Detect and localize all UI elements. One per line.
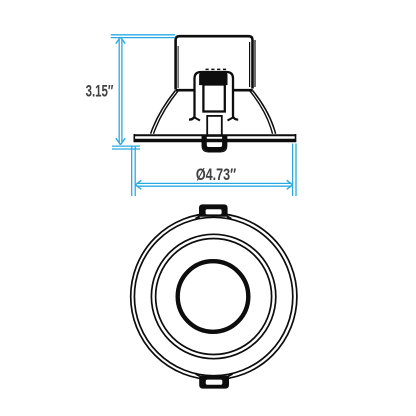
housing box right edge inner echo — [249, 42, 251, 87]
ceiling flange top line — [134, 134, 297, 136]
dim 4.73 horizontal dimension line pair — [137, 183, 292, 186]
bottom mounting tab slot — [206, 380, 223, 385]
bottom view outer flange inner circle — [134, 217, 292, 375]
housing box (side view can) — [176, 36, 253, 89]
bottom view lens opening thick circle — [178, 261, 249, 332]
top mounting tab right ear — [227, 217, 231, 219]
LED module rectangle — [203, 85, 224, 112]
housing box right edge echo — [254, 40, 256, 87]
svg-text:3.15″: 3.15″ — [86, 82, 114, 101]
bottom mounting tab (filled) — [199, 376, 229, 389]
top mounting tab (filled) — [199, 204, 228, 216]
flange left end cap — [133, 134, 135, 142]
top mounting tab left ear — [196, 217, 200, 219]
dim 3.15 top arrowhead — [116, 37, 125, 44]
dim 3.15 top extension line pair — [111, 35, 175, 38]
gimbal yoke U strap below flange — [205, 136, 225, 149]
trim cone left bell curve — [151, 91, 176, 134]
cone top rim line right segment — [234, 89, 253, 92]
dim 4.73 right extension line pair — [293, 144, 296, 197]
gimbal bracket right foot — [228, 118, 234, 121]
bottom view trim ring outer circle — [151, 234, 275, 358]
gimbal yoke stem rectangle — [207, 116, 222, 136]
trim cone left bell curve echo — [154, 91, 179, 134]
top mounting tab slot — [206, 209, 222, 214]
bottom view trim ring inner circle — [156, 239, 272, 355]
bottom mounting tab right ear — [229, 374, 233, 376]
gimbal yoke U strap echo outline — [202, 136, 227, 152]
trim cone right bell curve echo — [250, 91, 273, 134]
dim 4.73 left extension line pair — [132, 146, 136, 196]
dim 4.73 left arrowhead — [135, 180, 141, 189]
housing box left edge echo — [177, 46, 179, 88]
dim 3.15 bottom extension line pair — [112, 146, 140, 149]
cone top rim line left segment — [176, 89, 194, 92]
flange right end cap — [295, 134, 297, 142]
dim 3.15 bottom arrowhead — [116, 138, 125, 145]
dim 4.73 right arrowhead — [287, 180, 293, 189]
gimbal bracket left foot — [195, 118, 201, 121]
LED heatsink block (filled) — [200, 72, 227, 84]
bottom view outer flange circle — [131, 213, 297, 379]
bottom mounting tab left ear — [196, 374, 200, 376]
trim cone right bell curve — [253, 91, 276, 134]
ceiling flange bottom bar — [134, 139, 297, 143]
hidden dashed line above bracket — [206, 68, 229, 70]
dim 3.15 vertical dimension line pair — [119, 40, 122, 143]
gimbal bracket outline — [189, 72, 238, 120]
svg-text:Ø4.73″: Ø4.73″ — [196, 165, 236, 184]
